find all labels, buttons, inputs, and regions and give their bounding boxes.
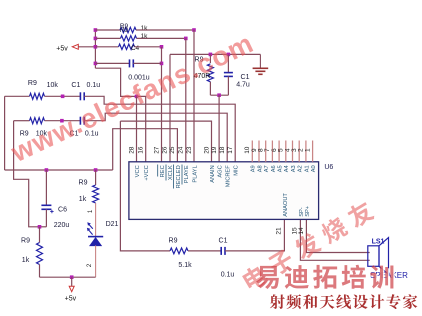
label R9 (5.1k) — [169, 238, 178, 245]
node AGC dot — [217, 93, 221, 97]
label D21 — [106, 221, 119, 228]
wire bus to R2 — [95, 37, 120, 39]
value 4.7u — [236, 82, 250, 89]
node bottom rail dot — [70, 275, 74, 279]
label R9 10k C1 0.1u (row2) — [20, 131, 99, 138]
svg-text:4.7u: 4.7u — [236, 82, 250, 89]
wire SP- to speaker — [300, 219, 369, 260]
svg-text:10k: 10k — [47, 82, 59, 89]
wire C6 bottom node — [37, 226, 46, 228]
wire row2 mid — [45, 120, 81, 122]
wire bus staircase to VCC pins — [95, 68, 145, 162]
wire C 0.001u to REC line — [133, 62, 161, 64]
resistor C4 1k (third, to REC) — [119, 44, 135, 49]
resistor R9 10k (row2) — [30, 118, 45, 124]
resistor R9 5.1k — [170, 248, 188, 254]
value 1k (R2) — [141, 33, 149, 40]
wire SP+ to speaker — [306, 219, 369, 252]
power +5v (bottom) — [65, 277, 77, 302]
node R3 corner dot — [160, 45, 164, 49]
wire pin24 PLAYE vertical — [185, 38, 187, 161]
wire R3 to pin27 column — [135, 46, 162, 48]
label R9 1k (LED column) — [79, 180, 88, 204]
wire ANAIN horizontal to pin20 — [120, 121, 211, 162]
svg-text:MICREF: MICREF — [226, 165, 232, 187]
svg-text:A9: A9 — [251, 165, 257, 172]
decorative watermarks — [5, 27, 258, 168]
svg-text:R9: R9 — [120, 27, 129, 34]
node GND rail dots — [209, 53, 231, 57]
node R1 corner dot — [192, 28, 196, 32]
capacitor C1 0.1u (row2) — [80, 117, 84, 125]
label U6 — [324, 164, 333, 171]
watermark 射频和天线设计专家 — [270, 294, 417, 309]
label R9 1k (left) — [21, 238, 30, 265]
wire +5v bus vertical — [94, 30, 96, 68]
svg-text:VCC: VCC — [135, 165, 141, 177]
svg-text:220u: 220u — [54, 222, 70, 229]
wire pin19 AGC vertical — [218, 95, 220, 162]
wire bus to R1 — [95, 29, 120, 31]
svg-text:1k: 1k — [79, 196, 87, 203]
wire R1 to pin23 column — [136, 29, 194, 31]
node row1 dot — [61, 95, 65, 99]
speaker LS1 — [368, 238, 389, 275]
svg-text:R9: R9 — [79, 180, 88, 187]
wire row2 to R — [14, 120, 30, 122]
wire AGC bottom rail — [210, 94, 228, 96]
wire bottom rail — [40, 276, 96, 278]
wire row1 mid — [45, 95, 81, 97]
wire pin26 XCLK vertical — [169, 54, 171, 161]
wire row1 to R — [5, 95, 30, 97]
svg-text:C1: C1 — [241, 74, 250, 81]
label C1 (4.7u) — [241, 74, 250, 81]
svg-text:RECLED: RECLED — [176, 165, 182, 188]
wire bias rail y170 — [5, 169, 113, 171]
wire +5v feed to bus — [78, 46, 95, 48]
wire row2 left vertical jog — [14, 121, 37, 227]
node rail dots — [45, 168, 98, 172]
svg-text:23: 23 — [186, 146, 193, 154]
value 1k (R1) — [141, 25, 149, 32]
wire 5.1k to C1 — [188, 250, 221, 252]
svg-text:A4: A4 — [284, 165, 290, 172]
capacitor 0.001u — [130, 59, 134, 67]
svg-text:21: 21 — [275, 227, 282, 235]
pin number 21 — [275, 227, 282, 235]
label R9 10k C1 0.1u (row1) — [28, 80, 100, 89]
wire rail to R9 1k (LED column) — [95, 170, 97, 185]
label C6 220u — [54, 207, 70, 230]
svg-text:A1: A1 — [304, 165, 310, 172]
wire C1 to ANAOUT pin21 — [225, 219, 284, 251]
svg-text:20: 20 — [203, 146, 210, 154]
wire pin28 VCC vertical — [136, 96, 138, 161]
node row2 dot — [60, 119, 64, 123]
svg-text:C1: C1 — [219, 238, 228, 245]
wire row1 left vertical — [4, 96, 6, 170]
svg-text:16: 16 — [138, 146, 145, 154]
wire ANAIN feedback vertical — [120, 121, 170, 251]
svg-text:14: 14 — [298, 227, 305, 235]
node VCC dot — [135, 95, 139, 99]
resistor R9 1k (LED column) — [93, 185, 99, 203]
svg-text:R9: R9 — [169, 238, 178, 245]
svg-text:A2: A2 — [298, 165, 304, 172]
svg-text:A5: A5 — [278, 165, 284, 172]
svg-text:+VCC: +VCC — [144, 165, 150, 180]
wire row2 to MICREF pin18 — [84, 113, 227, 162]
capacitor C6 220u electrolytic — [41, 170, 53, 227]
resistor R9 470R — [207, 64, 213, 82]
wire R2 to pin24 column — [137, 37, 186, 39]
svg-text:LS1: LS1 — [372, 239, 385, 246]
wire 470R to AGC rail — [209, 82, 211, 95]
wire row1 to MIC pin17 — [84, 96, 235, 162]
svg-text:+5v: +5v — [65, 296, 77, 303]
wire GND rail to R 470R — [209, 54, 211, 63]
svg-text:ANAIN: ANAIN — [210, 165, 216, 182]
svg-text:17: 17 — [227, 146, 234, 154]
IC pin labels ANAOUT SP- SP+ — [283, 193, 311, 217]
svg-text:0.1u: 0.1u — [86, 82, 100, 89]
svg-text:18: 18 — [219, 146, 226, 154]
svg-text:ANAOUT: ANAOUT — [283, 193, 289, 217]
svg-text:R9: R9 — [28, 80, 37, 87]
wire R9 left to bottom rail — [39, 265, 41, 278]
wire bus to C 0.001u — [95, 62, 129, 64]
pin numbers top row — [128, 146, 311, 154]
capacitor C1 4.7u — [224, 54, 233, 95]
wire address pin stubs 10-1 — [252, 141, 312, 162]
svg-text:MIC: MIC — [234, 165, 240, 175]
svg-text:1k: 1k — [141, 25, 149, 32]
node R2 corner dot — [184, 37, 188, 41]
wire pin23 PLAYL vertical — [193, 30, 195, 162]
value 0.001u — [128, 75, 150, 82]
ground symbol — [253, 54, 269, 74]
svg-text:24: 24 — [178, 146, 185, 154]
svg-text:D21: D21 — [106, 221, 119, 228]
node bus junction dots — [94, 28, 98, 65]
svg-text:27: 27 — [153, 146, 160, 154]
svg-text:C4: C4 — [131, 45, 140, 52]
resistor R9 10k (row1) — [30, 93, 45, 99]
value 470R — [194, 73, 211, 80]
svg-text:A8: A8 — [257, 165, 263, 172]
op-amp U6 IC body — [129, 162, 319, 220]
pin number 2 (LED) — [87, 263, 93, 267]
svg-text:1: 1 — [304, 148, 311, 152]
svg-text:0.1u: 0.1u — [221, 272, 235, 279]
svg-text:26: 26 — [162, 146, 169, 154]
diode D21 LED — [87, 222, 103, 245]
wire GND rail (top) — [170, 53, 260, 55]
wire RECLED route — [113, 129, 178, 170]
resistor R9 1k (second, to PLAYE) — [121, 36, 137, 41]
svg-text:SP+: SP+ — [305, 205, 311, 217]
resistor R9 1k (left vertical) — [37, 243, 43, 265]
resistor R9 1k (top, to PLAYL) — [120, 23, 136, 34]
svg-text:R9: R9 — [21, 238, 30, 245]
svg-text:U6: U6 — [324, 164, 333, 171]
IC pin labels ANAIN AGC MICREF MIC — [210, 165, 240, 187]
value 0.1u (feedback) — [221, 272, 235, 279]
IC pin labels A9-A0 — [251, 165, 317, 172]
value C4 label — [131, 45, 140, 52]
svg-text:5.1k: 5.1k — [178, 262, 192, 269]
value 5.1k — [178, 262, 192, 269]
wire LED cathode to bottom rail — [95, 245, 97, 277]
svg-text:REC: REC — [160, 165, 166, 177]
wire bus to R3 — [95, 46, 118, 48]
svg-text:C6: C6 — [58, 207, 67, 214]
wire R9 to LED anode — [95, 203, 97, 237]
IC pin labels VCC +VCC — [135, 165, 150, 180]
svg-text:A3: A3 — [291, 165, 297, 172]
node 0.001u junction dot on REC line — [160, 62, 164, 66]
label R9 (470R) — [195, 57, 204, 64]
svg-text:PLAYE: PLAYE — [184, 165, 190, 183]
watermark 易迪拓培训 — [257, 266, 394, 290]
capacitor C1 0.1u (feedback) — [221, 247, 225, 255]
pin number 15 — [292, 227, 299, 235]
wire node to R9 1k left — [39, 227, 41, 243]
svg-text:A6: A6 — [271, 165, 277, 172]
IC pin labels REC XCLK RECLED PLAYE PLAYL — [158, 165, 199, 189]
label C1 (feedback) — [219, 238, 228, 245]
svg-text:C1: C1 — [71, 82, 80, 89]
svg-text:PLAYL: PLAYL — [192, 165, 198, 182]
power +5v (left) — [56, 44, 78, 52]
capacitor C1 0.1u (row1) — [80, 92, 84, 100]
svg-text:25: 25 — [169, 146, 176, 154]
svg-text:A7: A7 — [264, 165, 270, 172]
svg-text:A0: A0 — [311, 165, 317, 172]
pin number 14 — [298, 227, 305, 235]
node C6 bottom dot — [38, 225, 42, 229]
watermark 电子发烧友 diagonal — [240, 199, 376, 293]
svg-text:AGC: AGC — [218, 165, 224, 177]
svg-text:28: 28 — [128, 146, 135, 154]
svg-text:+5v: +5v — [56, 46, 68, 53]
pin number 1 (LED) — [88, 209, 94, 213]
svg-text:1k: 1k — [22, 257, 30, 264]
label LS1 — [372, 239, 385, 246]
label SPEAKER — [370, 271, 408, 280]
svg-text:19: 19 — [211, 146, 218, 154]
wire pin27 REC vertical — [161, 47, 163, 162]
